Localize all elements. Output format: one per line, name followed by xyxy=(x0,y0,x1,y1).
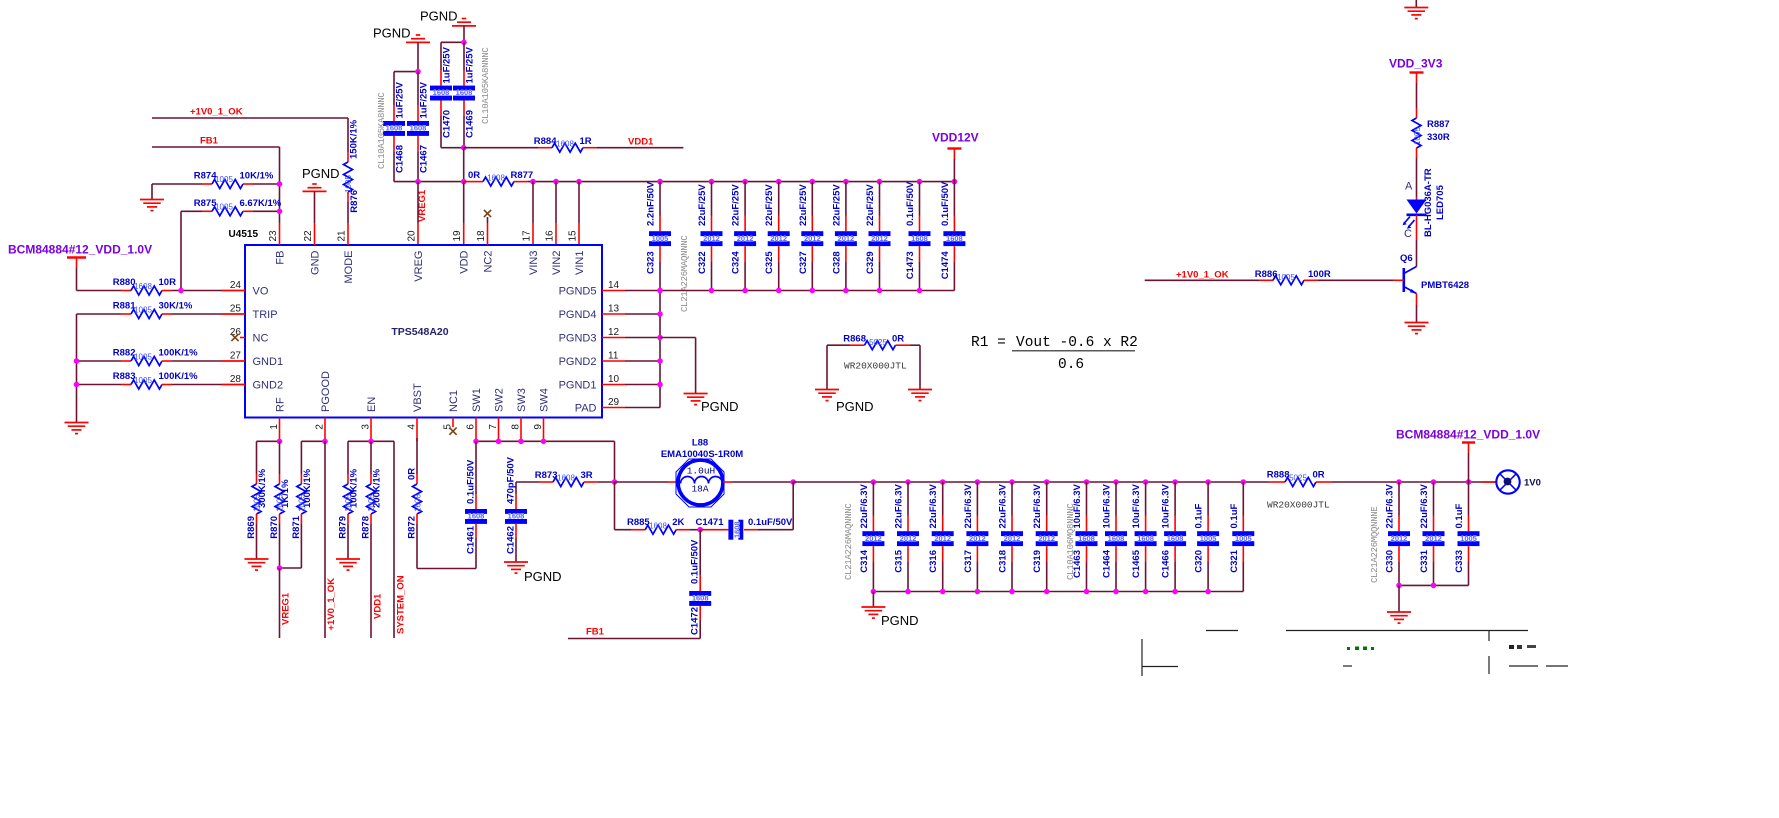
wire net FB1 (bottom) xyxy=(568,627,700,639)
svg-text:6: 6 xyxy=(465,424,476,430)
wire PGND trunk xyxy=(657,288,663,408)
junction VIN rail at C1473 xyxy=(917,179,923,185)
svg-text:R871: R871 xyxy=(291,515,302,538)
ground xyxy=(336,559,360,570)
junction VIN rail at C325 xyxy=(776,179,782,185)
capacitor C322 22uF/25V xyxy=(697,182,723,291)
svg-text:1005: 1005 xyxy=(367,494,376,512)
svg-text:WR20X000JTL: WR20X000JTL xyxy=(844,361,907,372)
resistor R883 100K/1% xyxy=(77,371,246,389)
svg-text:PGND4: PGND4 xyxy=(559,309,597,321)
svg-text:1005: 1005 xyxy=(215,203,233,212)
svg-text:22uF/6.3V: 22uF/6.3V xyxy=(1032,483,1043,528)
svg-text:1uF/25V: 1uF/25V xyxy=(395,81,406,118)
svg-text:1608: 1608 xyxy=(456,88,473,97)
part number WR20X000JTL xyxy=(844,361,907,372)
svg-text:WR20X000JTL: WR20X000JTL xyxy=(1267,500,1330,511)
svg-text:CL10A105KA8NNNC: CL10A105KA8NNNC xyxy=(481,47,491,124)
svg-text:R877: R877 xyxy=(511,170,534,181)
transistor Q6 PMBT6428 xyxy=(1400,253,1469,323)
svg-text:A: A xyxy=(1405,181,1413,193)
svg-text:SW4: SW4 xyxy=(538,388,550,412)
svg-text:22uF/6.3V: 22uF/6.3V xyxy=(859,483,870,528)
capacitor C1463 10uF/6.3V xyxy=(1072,482,1098,592)
svg-text:2012: 2012 xyxy=(900,534,917,543)
junction FB/R875 xyxy=(277,209,283,215)
part number CL21A226MAQNNNC xyxy=(844,503,854,580)
svg-text:5025: 5025 xyxy=(1289,474,1307,483)
svg-text:1005: 1005 xyxy=(652,234,669,243)
svg-text:BL-HG036A-TR: BL-HG036A-TR xyxy=(1423,168,1434,237)
svg-text:FB1: FB1 xyxy=(200,136,219,147)
resistor R878 200K/1% xyxy=(361,441,383,638)
capacitor C315 22uF/6.3V xyxy=(894,482,920,592)
svg-text:1608: 1608 xyxy=(134,282,152,291)
ground xyxy=(245,559,269,570)
svg-text:VIN3: VIN3 xyxy=(528,251,540,275)
junction R883/gnd xyxy=(74,382,80,388)
svg-text:R879: R879 xyxy=(338,516,349,539)
svg-text:30K/1%: 30K/1% xyxy=(159,301,193,312)
svg-text:3R: 3R xyxy=(581,470,593,481)
U4515 pin 27 GND1 xyxy=(222,351,283,368)
svg-text:2012: 2012 xyxy=(737,234,754,243)
svg-text:21: 21 xyxy=(337,230,348,242)
svg-text:C314: C314 xyxy=(859,549,870,572)
svg-text:5025: 5025 xyxy=(869,338,887,347)
svg-text:PAD: PAD xyxy=(575,402,597,414)
svg-text:22uF/6.3V: 22uF/6.3V xyxy=(1419,483,1430,528)
svg-text:R869: R869 xyxy=(246,516,257,539)
junction VIN rail at C323 xyxy=(657,179,663,185)
junction VIN rail at C329 xyxy=(877,179,883,185)
U4515 pin 6 SW1 xyxy=(465,388,483,441)
svg-text:C1471: C1471 xyxy=(696,517,725,528)
port 1V0 xyxy=(1482,470,1541,493)
wire output rail xyxy=(793,481,1269,483)
svg-text:C328: C328 xyxy=(831,251,842,274)
resistor R872 0R xyxy=(407,438,477,569)
svg-text:0.1uF/50V: 0.1uF/50V xyxy=(748,517,793,528)
U4515 pin 15 VIN1 xyxy=(568,230,586,275)
U4515 pin 19 VDD stub xyxy=(463,182,465,245)
svg-text:R886: R886 xyxy=(1255,269,1278,280)
junction output rail at C1465 xyxy=(1143,479,1149,485)
svg-text:C1469: C1469 xyxy=(465,110,476,138)
svg-text:VDD12V: VDD12V xyxy=(932,131,979,145)
svg-text:22uF/6.3V: 22uF/6.3V xyxy=(894,483,905,528)
svg-text:C1473: C1473 xyxy=(905,251,916,279)
wire net FB1 to FB pin xyxy=(152,147,280,223)
junction output rail at C316 xyxy=(940,479,946,485)
svg-text:L88: L88 xyxy=(692,438,708,449)
junction FB/R874 xyxy=(277,181,283,187)
svg-text:NC1: NC1 xyxy=(448,390,460,412)
svg-text:1608: 1608 xyxy=(410,124,427,133)
svg-text:C323: C323 xyxy=(646,251,657,274)
power symbol BCM84884#12_VDD_1.0V (right) xyxy=(1396,428,1540,483)
svg-text:C1466: C1466 xyxy=(1161,550,1172,578)
svg-text:C321: C321 xyxy=(1229,549,1240,572)
svg-text:100K/1%: 100K/1% xyxy=(159,371,199,382)
junction VIN rail at C1474 xyxy=(952,179,958,185)
svg-text:0.1uF/50V: 0.1uF/50V xyxy=(466,459,477,504)
svg-text:R875: R875 xyxy=(194,198,217,209)
svg-text:10K/1%: 10K/1% xyxy=(240,171,274,182)
ground PGND xyxy=(815,390,874,415)
svg-text:100R: 100R xyxy=(1308,269,1331,280)
svg-text:22uF/25V: 22uF/25V xyxy=(764,184,775,226)
formula R1 = Vout -0.6 x R2 / 0.6 xyxy=(971,335,1138,373)
capacitor C1467 1uF/25V xyxy=(407,72,430,182)
svg-text:VDD: VDD xyxy=(459,250,471,273)
svg-text:C318: C318 xyxy=(998,550,1009,573)
wire net VREG1 xyxy=(280,568,292,638)
junction output rail at C315 xyxy=(905,479,911,485)
svg-text:2012: 2012 xyxy=(1004,534,1021,543)
ground xyxy=(1387,612,1411,623)
svg-text:1V0: 1V0 xyxy=(1524,478,1541,489)
svg-text:22uF/25V: 22uF/25V xyxy=(831,184,842,226)
wire EN rail xyxy=(348,439,394,445)
svg-text:29: 29 xyxy=(608,397,620,408)
capacitor C317 22uF/6.3V xyxy=(963,482,989,592)
svg-text:23: 23 xyxy=(268,230,279,242)
svg-text:C325: C325 xyxy=(764,251,775,274)
junction output rail at C314 xyxy=(871,479,877,485)
svg-text:VIN1: VIN1 xyxy=(574,251,586,275)
U4515 pin 16 VIN2 stub xyxy=(555,182,557,245)
svg-text:2012: 2012 xyxy=(804,234,821,243)
svg-text:C1464: C1464 xyxy=(1102,549,1113,578)
svg-text:1uF/25V: 1uF/25V xyxy=(419,81,430,118)
svg-text:CL10A106MQ8NNNC: CL10A106MQ8NNNC xyxy=(1066,503,1076,580)
capacitor C320 0.1uF xyxy=(1194,482,1220,592)
svg-text:GND: GND xyxy=(309,250,321,275)
U4515 pin 21 MODE xyxy=(337,223,355,284)
svg-text:0R: 0R xyxy=(407,468,418,480)
junction output rail at C321 xyxy=(1241,479,1247,485)
svg-text:22uF/25V: 22uF/25V xyxy=(731,184,742,226)
net label +1V0_1_OK xyxy=(190,107,243,118)
U4515 pin 17 VIN3 xyxy=(522,230,540,275)
svg-text:PGND: PGND xyxy=(524,569,562,584)
U4515 pin 17 VIN3 stub xyxy=(532,182,534,245)
svg-text:0.6: 0.6 xyxy=(1058,357,1084,373)
svg-text:R880: R880 xyxy=(113,277,136,288)
svg-text:FB: FB xyxy=(274,251,286,265)
svg-text:4: 4 xyxy=(406,424,417,430)
svg-text:0.1uF: 0.1uF xyxy=(1194,503,1205,528)
svg-text:1005: 1005 xyxy=(1460,534,1477,543)
U4515 pin 19 VDD xyxy=(452,230,470,274)
junction VIN1 xyxy=(576,179,582,185)
resistor R874 10K/1% xyxy=(152,171,280,200)
capacitor C1461 0.1uF/50V xyxy=(465,441,487,568)
svg-text:470pF/50V: 470pF/50V xyxy=(506,456,517,504)
svg-text:MODE: MODE xyxy=(343,251,355,284)
resistor R884 1R xyxy=(464,136,684,152)
svg-text:1005: 1005 xyxy=(134,353,152,362)
svg-text:1608: 1608 xyxy=(556,139,574,148)
svg-text:C1461: C1461 xyxy=(466,525,477,554)
capacitor C333 0.1uF xyxy=(1454,482,1480,585)
U4515 pin 20 VREG xyxy=(407,230,425,282)
capacitor C1466 10uF/6.3V xyxy=(1161,482,1187,592)
wire rail C1469 bottom / junction xyxy=(441,145,467,182)
svg-text:1005: 1005 xyxy=(298,494,307,512)
svg-text:14: 14 xyxy=(608,280,620,291)
svg-text:1608: 1608 xyxy=(508,512,525,521)
capacitor C319 22uF/6.3V xyxy=(1032,482,1058,592)
capacitor C330 22uF/6.3V xyxy=(1385,482,1411,585)
svg-text:R873: R873 xyxy=(535,470,558,481)
svg-text:1.0uH: 1.0uH xyxy=(687,466,716,477)
resistor R879 100K/1% xyxy=(338,441,360,559)
svg-text:RF: RF xyxy=(274,397,286,412)
svg-text:18A: 18A xyxy=(691,484,708,495)
svg-text:0R: 0R xyxy=(468,170,480,181)
svg-text:13: 13 xyxy=(608,304,620,315)
part number WR20X000JTL xyxy=(1267,500,1330,511)
svg-text:Vout -0.6 x R2: Vout -0.6 x R2 xyxy=(1016,335,1138,351)
resistor R868 0R xyxy=(827,334,920,390)
part number CL21A226MAQNNNC xyxy=(680,235,690,312)
svg-text:R872: R872 xyxy=(407,516,418,539)
svg-text:1005: 1005 xyxy=(1277,273,1295,282)
svg-text:VREG1: VREG1 xyxy=(281,592,292,625)
svg-text:VDD1: VDD1 xyxy=(628,136,654,147)
ground PGND xyxy=(684,394,739,415)
svg-text:0.1uF/50V: 0.1uF/50V xyxy=(905,181,916,226)
svg-text:R870: R870 xyxy=(269,516,280,539)
svg-text:R868: R868 xyxy=(843,334,866,345)
svg-text:C1462: C1462 xyxy=(506,526,517,554)
svg-text:+1V0_1_OK: +1V0_1_OK xyxy=(1176,269,1229,280)
svg-text:22uF/25V: 22uF/25V xyxy=(865,184,876,226)
svg-text:1005: 1005 xyxy=(134,306,152,315)
U4515 pin 28 GND2 xyxy=(222,374,283,391)
wire rail C1470/C1469 xyxy=(441,40,467,46)
junction VIN rail at C322 xyxy=(709,179,715,185)
wire net +1V0_1_OK (down) xyxy=(325,441,337,638)
capacitor C1471 0.1uF/50V xyxy=(696,482,794,540)
junction R885/C1471/C1472 xyxy=(697,527,703,533)
resistor R870 1K/1% xyxy=(269,441,291,568)
wire PGND3 branch to ground xyxy=(660,338,696,394)
resistor R875 6.67K/1% xyxy=(181,198,282,291)
svg-text:1: 1 xyxy=(269,424,280,430)
svg-text:VO: VO xyxy=(253,285,269,297)
capacitor C1468 1uF/25V xyxy=(383,72,406,182)
U4515 pin 12 PGND3 xyxy=(559,327,660,344)
svg-text:1608: 1608 xyxy=(692,594,709,603)
svg-text:1005: 1005 xyxy=(344,494,353,512)
svg-text:1R: 1R xyxy=(580,136,592,147)
svg-text:1608: 1608 xyxy=(468,512,485,521)
resistor R886 100R xyxy=(1145,269,1404,285)
svg-text:GND1: GND1 xyxy=(253,356,284,368)
svg-text:1608: 1608 xyxy=(1137,534,1154,543)
svg-text:1005: 1005 xyxy=(344,175,353,193)
svg-text:BCM84884#12_VDD_1.0V: BCM84884#12_VDD_1.0V xyxy=(8,243,152,257)
svg-text:1005: 1005 xyxy=(1200,534,1217,543)
junction inductor output xyxy=(790,479,796,485)
svg-text:22uF/6.3V: 22uF/6.3V xyxy=(1385,483,1396,528)
svg-text:EN: EN xyxy=(366,397,378,412)
capacitor C328 22uF/25V xyxy=(831,182,857,291)
svg-text:20: 20 xyxy=(407,230,418,242)
wire right bank bottom rail xyxy=(1396,583,1468,589)
resistor R882 100K/1% xyxy=(77,348,246,366)
svg-text:1005: 1005 xyxy=(1413,127,1422,145)
capacitor C1474 0.1uF/50V xyxy=(940,181,966,291)
U4515 pin 11 PGND2 xyxy=(559,351,660,368)
svg-text:150K/1%: 150K/1% xyxy=(349,119,360,159)
U4515 pin 4 VBST xyxy=(406,383,424,441)
svg-text:0.1uF/50V: 0.1uF/50V xyxy=(690,539,701,584)
capacitor C1465 10uF/6.3V xyxy=(1131,482,1157,592)
svg-text:1uF/25V: 1uF/25V xyxy=(442,46,453,83)
junction output rail at C1463 xyxy=(1084,479,1090,485)
svg-text:C1468: C1468 xyxy=(395,145,406,173)
junction output rail at C1464 xyxy=(1113,479,1119,485)
svg-text:1608: 1608 xyxy=(414,494,423,512)
U4515 pin 20 VREG stub xyxy=(417,182,419,245)
svg-text:C333: C333 xyxy=(1454,550,1465,573)
svg-text:C322: C322 xyxy=(697,251,708,274)
svg-text:8: 8 xyxy=(510,424,521,430)
ground xyxy=(65,423,89,434)
ground xyxy=(140,200,164,211)
svg-text:18: 18 xyxy=(476,230,487,242)
title block dashes xyxy=(1343,665,1568,667)
U4515 pin 29 PAD xyxy=(575,397,660,414)
junction output rail at C330 xyxy=(1396,479,1402,485)
resistor R871 100K/1% xyxy=(280,441,314,568)
resistor R869 300K/1% xyxy=(246,441,268,559)
svg-text:0.1uF/50V: 0.1uF/50V xyxy=(940,181,951,226)
svg-text:1005: 1005 xyxy=(1235,534,1252,543)
svg-text:PGND: PGND xyxy=(881,613,919,628)
PGND power symbol (left pair) xyxy=(373,26,430,72)
net label VDD1 (vertical) xyxy=(373,593,384,619)
svg-text:2012: 2012 xyxy=(969,534,986,543)
U4515 pin 2 PGOOD xyxy=(314,371,332,441)
junction VIN rail at C328 xyxy=(843,179,849,185)
svg-text:CL10A105KA8NNNC: CL10A105KA8NNNC xyxy=(377,92,387,169)
svg-text:1608: 1608 xyxy=(557,474,575,483)
svg-text:EMA10040S-1R0M: EMA10040S-1R0M xyxy=(661,449,743,460)
resistor R873 3R xyxy=(516,470,615,487)
wire output caps bottom rail xyxy=(871,589,1244,595)
svg-text:VIN2: VIN2 xyxy=(551,251,563,275)
svg-text:R883: R883 xyxy=(113,371,136,382)
svg-text:15: 15 xyxy=(568,230,579,242)
U4515 pin 16 VIN2 xyxy=(545,230,563,275)
svg-text:+1V0_1_OK: +1V0_1_OK xyxy=(326,578,337,631)
svg-text:VREG: VREG xyxy=(413,251,425,282)
svg-text:R887: R887 xyxy=(1427,119,1450,130)
capacitor C1473 0.1uF/50V xyxy=(905,181,931,291)
capacitor C329 22uF/25V xyxy=(865,182,891,291)
svg-text:C316: C316 xyxy=(928,550,939,573)
junction output rail at C331 xyxy=(1431,479,1437,485)
part number CL10A106MQ8NNNC xyxy=(1066,503,1076,580)
svg-text:1608: 1608 xyxy=(433,88,450,97)
wire PGOOD rail xyxy=(301,439,327,445)
svg-text:1608: 1608 xyxy=(733,521,742,538)
svg-text:27: 27 xyxy=(230,351,242,362)
svg-text:CL21A226MAQNNNC: CL21A226MAQNNNC xyxy=(844,503,854,580)
svg-text:R1 =: R1 = xyxy=(971,335,1006,351)
resistor R877 0R xyxy=(464,170,955,186)
svg-text:6.67K/1%: 6.67K/1% xyxy=(240,198,282,209)
U4515 pin 14 PGND5 xyxy=(559,280,660,297)
U4515 pin 15 VIN1 stub xyxy=(578,182,580,245)
resistor R881 30K/1% xyxy=(77,301,246,423)
net label +1V0_1_OK xyxy=(1176,269,1229,280)
svg-text:1608: 1608 xyxy=(649,522,667,531)
part number CL10A105KA8NNNC xyxy=(377,92,387,169)
svg-text:R881: R881 xyxy=(113,301,136,312)
U4515 pin 10 PGND1 xyxy=(559,374,660,391)
junction VIN rail at C327 xyxy=(810,179,816,185)
resistor R888 0R xyxy=(1267,470,1497,487)
capacitor C321 0.1uF xyxy=(1229,482,1255,592)
svg-text:R888: R888 xyxy=(1267,470,1290,481)
U4515 pin 7 SW2 xyxy=(488,388,506,441)
capacitor C316 22uF/6.3V xyxy=(928,482,954,592)
svg-text:SW1: SW1 xyxy=(471,388,483,412)
junction R882/gnd xyxy=(74,358,80,364)
svg-text:24: 24 xyxy=(230,280,242,291)
svg-text:2012: 2012 xyxy=(934,534,951,543)
svg-text:2012: 2012 xyxy=(770,234,787,243)
svg-text:1608: 1608 xyxy=(1167,534,1184,543)
svg-text:1608: 1608 xyxy=(386,124,403,133)
resistor R880 10R xyxy=(77,277,246,295)
svg-text:R878: R878 xyxy=(361,516,372,539)
svg-text:22uF/25V: 22uF/25V xyxy=(798,184,809,226)
svg-text:1005: 1005 xyxy=(134,376,152,385)
svg-text:C1472: C1472 xyxy=(690,607,701,635)
power symbol VDD_3V3 xyxy=(1389,57,1443,109)
svg-text:FB1: FB1 xyxy=(586,627,605,638)
U4515 pin 1 RF xyxy=(269,397,287,441)
svg-text:C317: C317 xyxy=(963,550,974,573)
capacitor C1464 10uF/6.3V xyxy=(1102,482,1128,592)
LED705 BL-HG036A-TR xyxy=(1403,168,1447,266)
wire VREG rail xyxy=(394,179,467,185)
svg-text:5: 5 xyxy=(442,424,453,430)
svg-text:2012: 2012 xyxy=(865,534,882,543)
capacitor C331 22uF/6.3V xyxy=(1419,482,1445,585)
svg-text:2012: 2012 xyxy=(1038,534,1055,543)
capacitor C1470 1uF/25V xyxy=(430,42,453,147)
junction VO/R875 xyxy=(178,288,184,294)
svg-text:3: 3 xyxy=(360,424,371,430)
PGND power symbol (right pair) xyxy=(420,9,476,43)
svg-text:1608: 1608 xyxy=(1108,534,1125,543)
inductor L88 EMA10040S-1R0M 1.0uH 18A xyxy=(615,438,794,508)
capacitor C1462 470pF/50V xyxy=(505,456,527,562)
svg-text:C330: C330 xyxy=(1385,550,1396,573)
svg-text:7: 7 xyxy=(488,424,499,430)
junction VIN rail at C324 xyxy=(742,179,748,185)
svg-text:16: 16 xyxy=(545,230,556,242)
net label VDD1 xyxy=(628,136,654,147)
